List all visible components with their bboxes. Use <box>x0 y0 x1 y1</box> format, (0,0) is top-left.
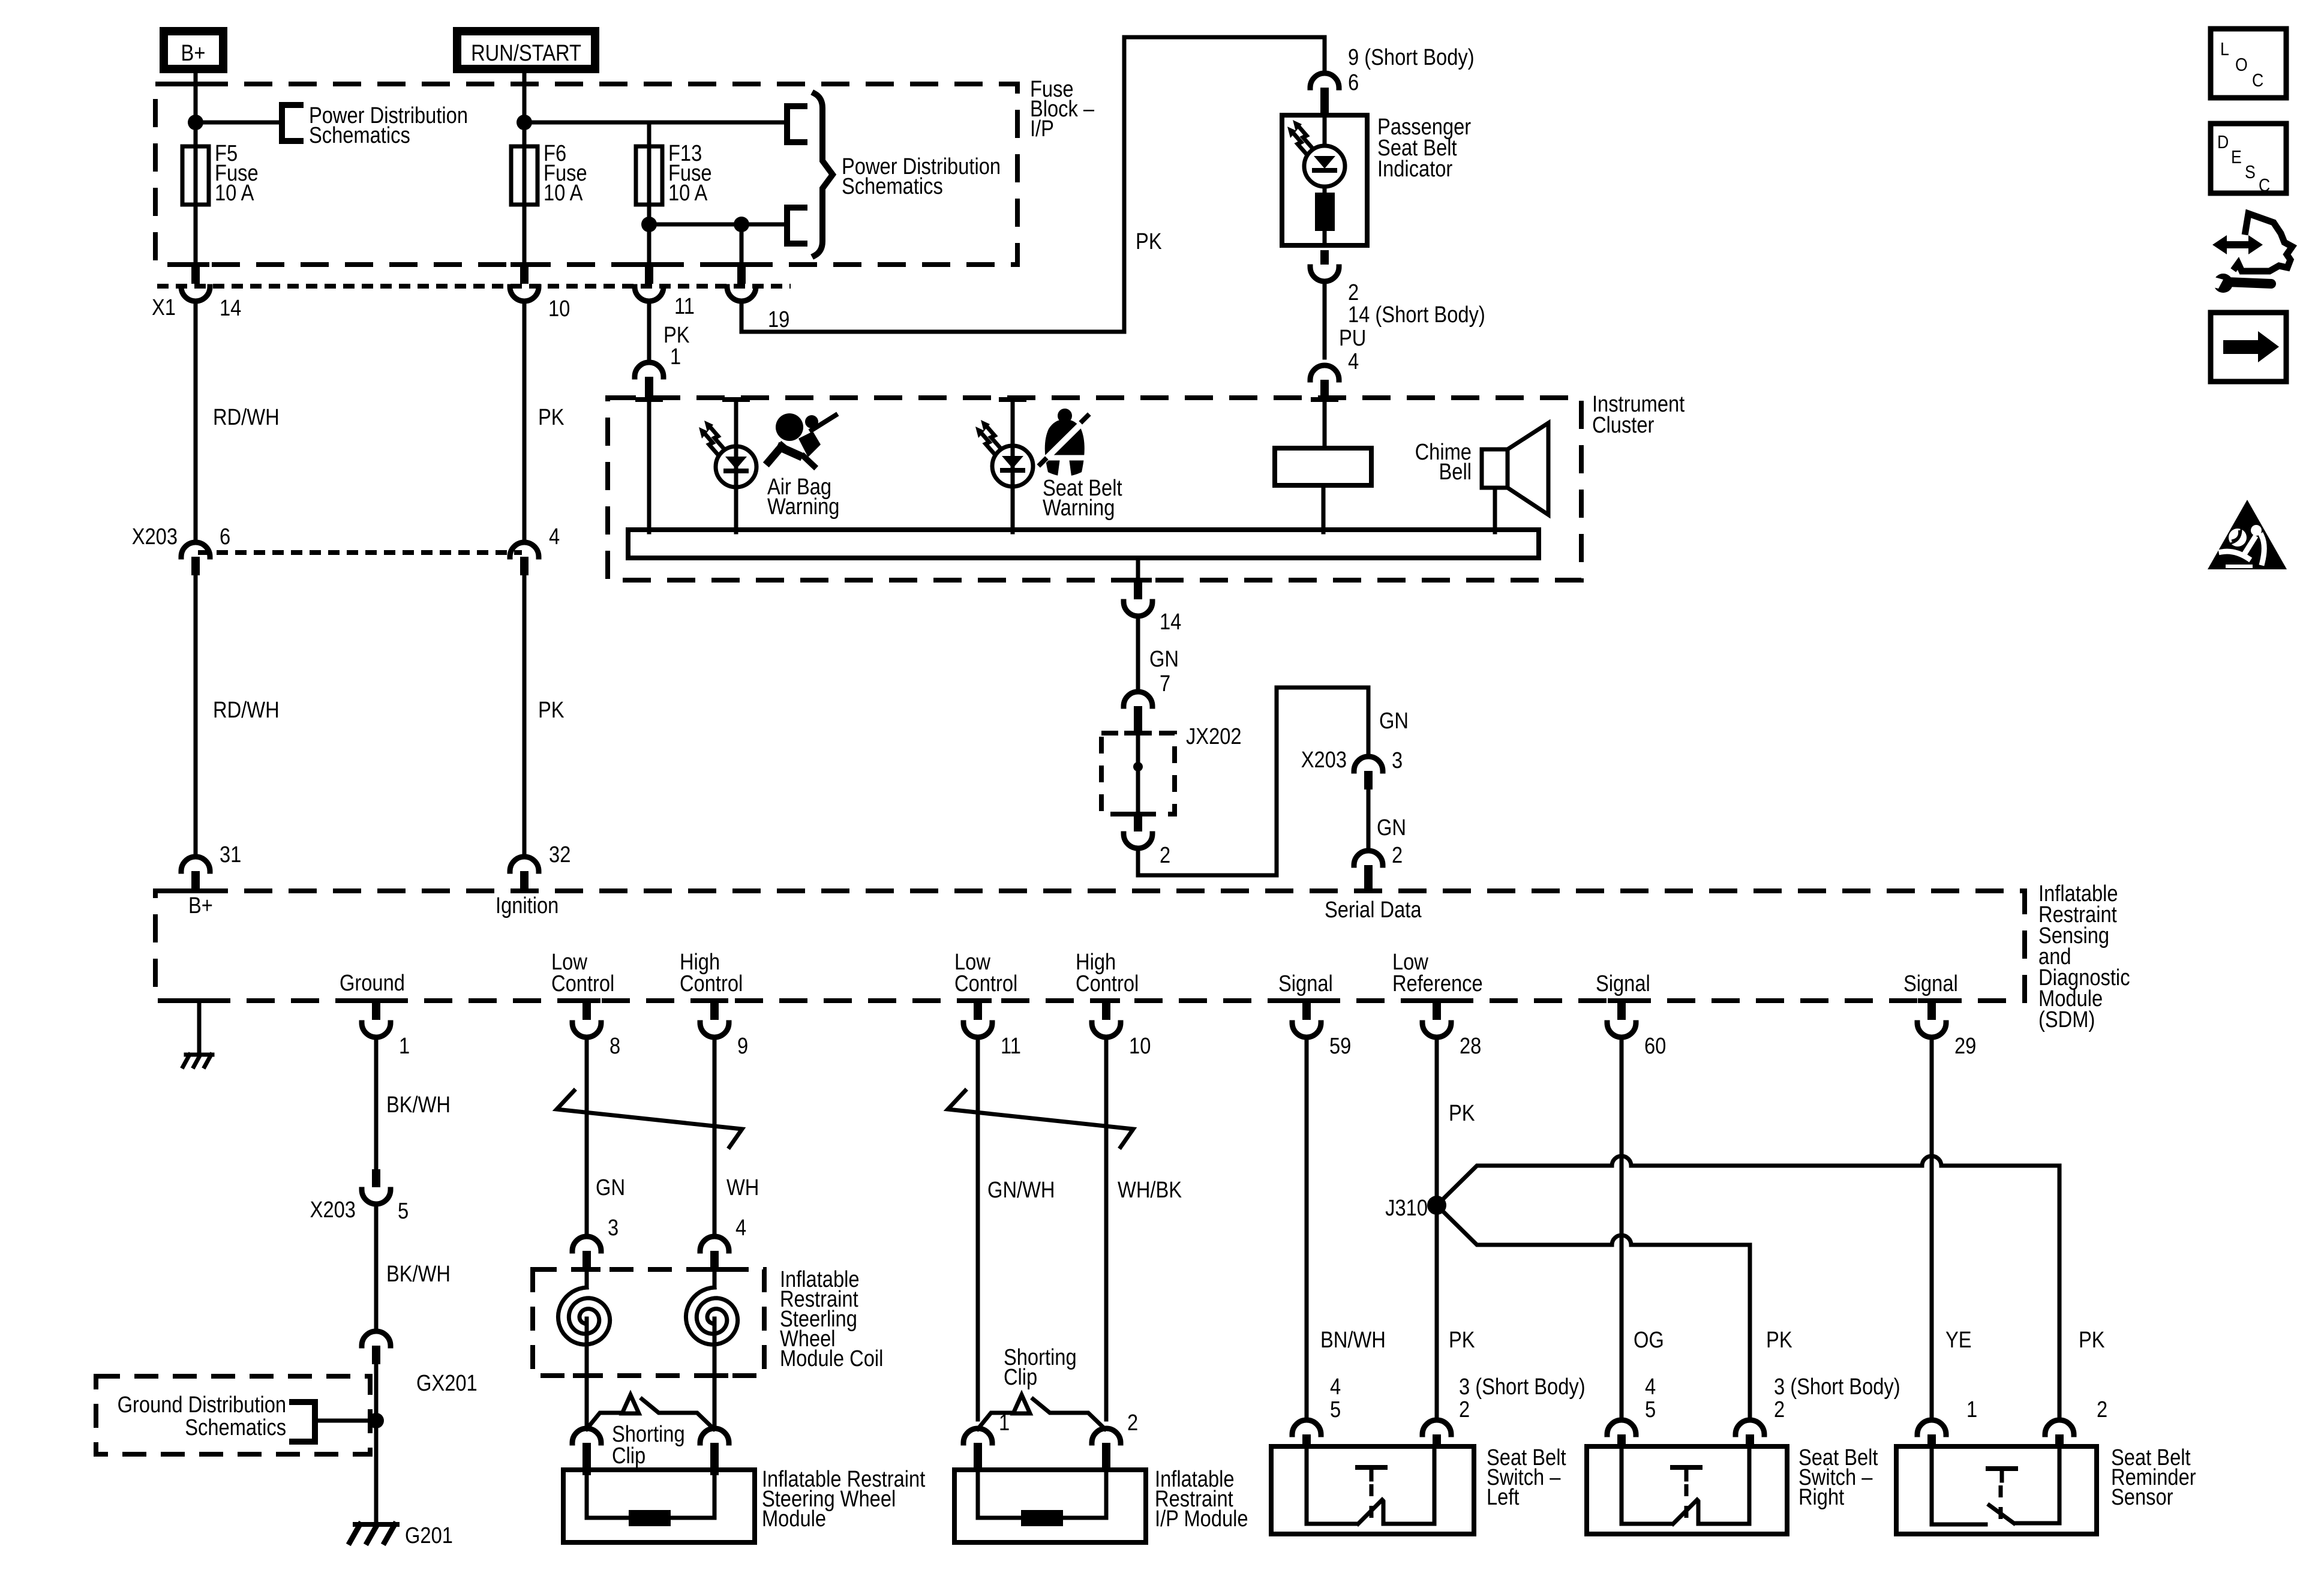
svg-text:B+: B+ <box>181 40 206 66</box>
svg-text:L: L <box>2220 39 2229 59</box>
connector reminder pin 1 <box>1917 1420 1946 1448</box>
svg-text:Control: Control <box>954 971 1017 996</box>
connector indicator pin 2 <box>1310 250 1359 305</box>
svg-text:O: O <box>2235 55 2248 75</box>
svg-text:PK: PK <box>1136 229 1162 254</box>
svg-text:Schematics: Schematics <box>309 122 410 148</box>
svg-text:RD/WH: RD/WH <box>213 404 280 430</box>
connector SDM pin 10 <box>1092 998 1151 1059</box>
svg-text:32: 32 <box>549 842 571 867</box>
svg-text:GN: GN <box>1379 708 1409 734</box>
label air bag warning <box>767 474 839 520</box>
svg-text:GX201: GX201 <box>416 1370 478 1396</box>
wire BK/WH SDM-1 upper <box>376 1037 451 1169</box>
connector X203 pin 5 <box>310 1169 409 1224</box>
svg-text:B+: B+ <box>188 893 213 918</box>
svg-text:GN: GN <box>596 1175 625 1200</box>
connector X203 pin 3 <box>1301 747 1403 789</box>
coil spiral right <box>686 1271 737 1376</box>
J310 branch upper to reminder <box>1437 1156 2059 1419</box>
air bag warning LED <box>699 397 756 532</box>
wire bracket to ground wire <box>315 1419 376 1423</box>
wire BN/WH SDM-59 down <box>1307 1037 1386 1419</box>
label Signal pin 59 <box>1278 971 1333 996</box>
svg-text:Bell: Bell <box>1439 459 1472 485</box>
fuse F5 10A <box>182 140 259 206</box>
svg-text:PK: PK <box>538 404 565 430</box>
svg-text:X203: X203 <box>310 1197 356 1223</box>
svg-text:60: 60 <box>1644 1033 1666 1059</box>
twisted pair mark coil <box>557 1091 742 1147</box>
connector coil pin 4 <box>700 1215 746 1271</box>
wire OG SDM-60 down <box>1622 1037 1664 1419</box>
svg-text:I/P Module: I/P Module <box>1155 1506 1248 1532</box>
connector cluster pin 1 <box>635 362 663 402</box>
svg-text:Cluster: Cluster <box>1592 412 1655 438</box>
svg-text:Reference: Reference <box>1392 971 1483 996</box>
icon car with arrow <box>2211 214 2292 293</box>
svg-text:D: D <box>2217 132 2229 152</box>
svg-text:WH: WH <box>726 1175 759 1200</box>
connector coil pin 3 <box>572 1215 618 1271</box>
svg-text:PK: PK <box>538 697 565 723</box>
wire SDM-9 down <box>713 1037 717 1236</box>
connector right switch pin 5 <box>1607 1420 1636 1448</box>
svg-text:Control: Control <box>551 971 614 996</box>
label shorting clip (I/P) <box>1004 1344 1077 1390</box>
svg-text:14 (Short Body): 14 (Short Body) <box>1348 302 1485 328</box>
right switch contacts <box>1622 1446 1749 1524</box>
connector X1 pin 19 <box>727 266 789 332</box>
svg-text:X1: X1 <box>152 295 176 320</box>
svg-text:1: 1 <box>399 1033 410 1059</box>
svg-text:2: 2 <box>1392 842 1403 868</box>
svg-text:10: 10 <box>1129 1033 1151 1059</box>
wire PK X1-19 to indicator <box>741 37 1325 332</box>
svg-text:4: 4 <box>735 1215 746 1241</box>
wire junction down to X1-19 <box>728 224 755 267</box>
inflatable restraint I/P module box <box>954 1470 1146 1542</box>
connector SDM pin 32 <box>510 842 571 893</box>
connector left switch pin 2 <box>1422 1420 1451 1448</box>
label GN <box>596 1175 625 1200</box>
labels reminder pins <box>1966 1397 2107 1422</box>
svg-text:2: 2 <box>1127 1410 1138 1436</box>
svg-text:Signal: Signal <box>1903 971 1958 996</box>
instrument cluster dashed box <box>608 398 1581 580</box>
wire F13 junction to pin19 junction <box>649 223 741 227</box>
connector SDM pin 8 <box>572 998 620 1059</box>
label passenger seat belt indicator <box>1377 114 1471 182</box>
connector right switch pin 2 <box>1736 1420 1764 1448</box>
svg-text:BN/WH: BN/WH <box>1320 1327 1386 1353</box>
fuse F6 10A <box>511 140 587 206</box>
svg-text:5: 5 <box>398 1198 409 1224</box>
label Low Control pin 11 <box>954 949 1017 996</box>
label PK reminder <box>2079 1327 2105 1353</box>
svg-text:14: 14 <box>1160 609 1181 635</box>
wire chime driver to bus <box>1322 485 1326 532</box>
wire coil to clip left <box>585 1376 589 1425</box>
svg-text:Module Coil: Module Coil <box>780 1346 883 1371</box>
connector SDM pin 1 <box>362 998 410 1059</box>
svg-text:X203: X203 <box>1301 747 1347 773</box>
svg-text:Control: Control <box>680 971 743 996</box>
svg-text:Serial Data: Serial Data <box>1325 897 1422 923</box>
svg-text:1: 1 <box>670 344 681 370</box>
icon DESC box <box>2211 124 2286 196</box>
labels left switch pins <box>1330 1374 1586 1422</box>
label Ground pin <box>340 970 405 996</box>
shorting clip steering wheel <box>587 1395 714 1429</box>
node pin19 junction <box>734 217 749 232</box>
svg-text:6: 6 <box>220 524 230 550</box>
fuse F13 10A <box>636 140 712 206</box>
svg-text:Warning: Warning <box>767 494 839 520</box>
svg-text:Schematics: Schematics <box>842 173 943 199</box>
svg-text:Clip: Clip <box>612 1443 645 1469</box>
svg-text:I/P: I/P <box>1030 116 1054 142</box>
svg-text:GN: GN <box>1149 646 1179 672</box>
label steering wheel module coil <box>780 1266 883 1371</box>
svg-text:19: 19 <box>768 307 789 332</box>
wire coil to clip right <box>713 1376 717 1425</box>
svg-text:PK: PK <box>1449 1100 1475 1126</box>
svg-text:28: 28 <box>1460 1033 1481 1059</box>
label Low Reference pin 28 <box>1392 949 1483 996</box>
svg-text:PK: PK <box>1766 1327 1792 1353</box>
cluster bus bar <box>628 530 1539 558</box>
wire SDM-11 down <box>976 1037 980 1419</box>
wire GN cluster to JX202 <box>1138 616 1179 697</box>
connector SDM pin 59 <box>1292 998 1351 1059</box>
svg-text:Left: Left <box>1487 1484 1520 1510</box>
wire B+ junction to bracket <box>196 121 281 125</box>
connector JX202 pin 7 <box>1124 692 1152 735</box>
left switch actuator <box>1358 1467 1385 1519</box>
svg-text:Schematics: Schematics <box>185 1415 286 1440</box>
inflatable restraint steering wheel module box <box>563 1470 755 1542</box>
connector SDM pin 28 <box>1422 998 1481 1059</box>
connector SDM serial pin 2 <box>1354 842 1403 893</box>
svg-text:BK/WH: BK/WH <box>386 1092 451 1118</box>
I/P squib left lead <box>976 1470 980 1518</box>
svg-text:JX202: JX202 <box>1186 724 1242 749</box>
bracket ground distribution <box>292 1402 315 1442</box>
svg-text:1: 1 <box>999 1410 1010 1436</box>
wire cluster pin1 to bus <box>647 401 651 532</box>
junction block JX202 dashed box <box>1101 731 1175 816</box>
svg-text:4: 4 <box>1645 1374 1656 1400</box>
svg-text:RD/WH: RD/WH <box>213 697 280 723</box>
svg-text:PK: PK <box>2079 1327 2105 1353</box>
label Ignition inside SDM <box>496 893 559 918</box>
module squib <box>587 1510 714 1526</box>
svg-text:11: 11 <box>674 293 695 319</box>
bracket power distribution (upper right) <box>787 106 804 142</box>
node F6 junction <box>517 115 532 130</box>
wire PK X1-10 to X203-4 <box>524 301 565 542</box>
svg-text:GN/WH: GN/WH <box>987 1177 1055 1203</box>
right switch actuator <box>1673 1467 1700 1519</box>
label instrument cluster <box>1592 391 1685 438</box>
wire PK X203-4 to SDM-32 <box>524 575 565 857</box>
SDM dashed box <box>155 888 2025 1001</box>
svg-text:GN: GN <box>1377 815 1406 840</box>
label WH/BK <box>1118 1177 1182 1203</box>
connector module pin right <box>700 1428 729 1475</box>
seat belt switch right box <box>1587 1446 1787 1534</box>
label Signal pin 29 <box>1903 971 1958 996</box>
label PK right switch <box>1766 1327 1792 1353</box>
svg-text:8: 8 <box>609 1033 620 1059</box>
ground G201 <box>350 1523 453 1548</box>
svg-text:Signal: Signal <box>1278 971 1333 996</box>
wire F13 drop <box>647 122 651 149</box>
svg-text:4: 4 <box>1348 349 1359 374</box>
svg-text:Signal: Signal <box>1596 971 1650 996</box>
connector cluster pin 4 <box>1310 365 1339 401</box>
steering wheel module coil dashed box <box>533 1267 764 1378</box>
wire SDM-10 down <box>1104 1037 1109 1419</box>
connector SDM pin 9 <box>700 998 748 1059</box>
svg-text:6: 6 <box>1348 70 1359 95</box>
svg-text:Clip: Clip <box>1004 1364 1037 1390</box>
connector row X1 dotted line <box>157 284 791 289</box>
node JX202 junction <box>1133 762 1143 772</box>
label chime bell <box>1415 439 1472 485</box>
svg-text:9 (Short Body): 9 (Short Body) <box>1348 44 1475 70</box>
svg-text:3: 3 <box>1392 748 1403 773</box>
coil spiral left <box>558 1271 609 1376</box>
label 14 short body / PU / 4 <box>1339 302 1485 374</box>
svg-text:G201: G201 <box>405 1523 453 1548</box>
node ground junction <box>368 1413 384 1428</box>
svg-text:3 (Short Body): 3 (Short Body) <box>1774 1374 1900 1400</box>
brace power distribution schematics <box>815 94 833 256</box>
wire PK J310 to switches <box>1437 1213 1475 1419</box>
left switch contacts <box>1307 1446 1434 1524</box>
power feed box RUN/START <box>457 31 595 69</box>
label Serial Data inside SDM <box>1325 897 1422 923</box>
svg-text:29: 29 <box>1954 1033 1976 1059</box>
node J310 <box>1385 1195 1446 1221</box>
label GN/WH <box>987 1177 1055 1203</box>
svg-text:5: 5 <box>1645 1397 1656 1422</box>
I/P squib <box>978 1510 1106 1526</box>
wire F5 to X1-14 <box>182 205 209 267</box>
svg-text:Warning: Warning <box>1043 495 1115 521</box>
svg-text:2: 2 <box>1459 1397 1470 1422</box>
svg-text:31: 31 <box>220 842 241 867</box>
connector cluster pin 14 (bottom) <box>1124 580 1181 635</box>
reminder switch actuator <box>1988 1469 2016 1520</box>
wire BK/WH X203-5 to GX201 <box>376 1204 451 1331</box>
svg-text:4: 4 <box>1330 1374 1341 1400</box>
connector SDM pin 29 <box>1917 998 1976 1059</box>
connector GX201 <box>362 1331 478 1396</box>
bracket power distribution (lower right) <box>787 208 804 244</box>
connector X1 pin 14 <box>152 266 241 321</box>
reminder switch contacts <box>1932 1446 2059 1524</box>
svg-text:10: 10 <box>548 296 570 322</box>
wire junction to bracket lower <box>741 223 787 227</box>
connector JX202 pin 2 <box>1124 814 1170 868</box>
icon airbag warning triangle <box>2208 500 2287 569</box>
svg-text:Ground: Ground <box>340 970 405 996</box>
svg-text:E: E <box>2231 147 2242 167</box>
bracket power distribution (left) <box>282 105 301 141</box>
connector indicator pin 6 <box>1310 73 1339 118</box>
svg-text:5: 5 <box>1330 1397 1341 1422</box>
passenger seat belt indicator box <box>1282 115 1367 245</box>
wire GX201 to G201 <box>374 1364 379 1524</box>
wire bus to cluster bottom <box>1124 558 1152 583</box>
label JX202 <box>1186 724 1242 749</box>
icon LOC box <box>2211 29 2286 98</box>
wire F6 junction to F13 and bracket <box>524 121 783 125</box>
svg-text:J310: J310 <box>1385 1195 1428 1221</box>
svg-text:Module: Module <box>762 1506 826 1532</box>
J310 branch lower to right switch <box>1437 1205 1750 1419</box>
svg-text:X203: X203 <box>132 524 178 550</box>
label seat belt reminder sensor <box>2111 1445 2196 1510</box>
wire PU indicator to cluster <box>1323 281 1327 358</box>
label power distribution schematics (right) <box>842 154 1001 199</box>
module squib left lead <box>585 1470 589 1518</box>
svg-text:Right: Right <box>1798 1484 1844 1510</box>
wire B+ to F5 <box>182 69 209 149</box>
connector X203 pin 4 <box>510 524 560 575</box>
svg-text:PU: PU <box>1339 325 1366 351</box>
svg-text:Ignition: Ignition <box>496 893 559 918</box>
svg-text:WH/BK: WH/BK <box>1118 1177 1182 1203</box>
connector reminder pin 2 <box>2045 1420 2074 1448</box>
twisted pair mark I/P <box>948 1091 1133 1147</box>
label shorting clip (steering) <box>612 1421 685 1469</box>
connector SDM pin 60 <box>1607 998 1666 1059</box>
connector left switch pin 5 <box>1292 1420 1321 1448</box>
label Low Control pin 8 <box>551 949 614 996</box>
label seat belt switch right <box>1798 1445 1878 1510</box>
svg-text:Indicator: Indicator <box>1377 156 1452 182</box>
connector I/P module pin 1 <box>963 1410 1010 1471</box>
svg-text:OG: OG <box>1634 1327 1664 1353</box>
I/P squib right lead <box>1104 1470 1109 1518</box>
svg-text:10 A: 10 A <box>668 180 708 206</box>
fuse block I/P dashed box <box>155 84 1017 265</box>
svg-text:2: 2 <box>1160 842 1170 868</box>
svg-text:(SDM): (SDM) <box>2038 1007 2095 1032</box>
seat belt switch left box <box>1271 1446 1474 1534</box>
air bag warning icon <box>768 413 836 466</box>
svg-text:YE: YE <box>1945 1327 1972 1353</box>
indicator LED <box>1287 115 1345 193</box>
svg-text:14: 14 <box>220 295 241 321</box>
svg-text:Sensor: Sensor <box>2111 1484 2173 1510</box>
label seat belt switch left <box>1487 1445 1566 1510</box>
wire through JX202 <box>1136 735 1140 813</box>
svg-text:10 A: 10 A <box>215 180 254 206</box>
svg-text:Control: Control <box>1076 971 1139 996</box>
svg-text:4: 4 <box>549 524 560 550</box>
svg-text:10 A: 10 A <box>544 180 583 206</box>
svg-text:C: C <box>2259 175 2270 196</box>
svg-text:11: 11 <box>1001 1033 1021 1059</box>
label ground distribution schematics <box>118 1392 286 1440</box>
labels right switch pins <box>1645 1374 1900 1422</box>
seat belt reminder sensor box <box>1896 1446 2097 1534</box>
wire GN X203-3 to SDM <box>1368 789 1406 851</box>
label SDM <box>2038 881 2130 1032</box>
connector X203 pin 6 <box>132 524 230 575</box>
label WH <box>726 1175 759 1200</box>
connector I/P module pin 2 <box>1092 1410 1138 1471</box>
svg-text:S: S <box>2245 162 2256 182</box>
indicator resistor <box>1315 193 1335 245</box>
wire GN JX202 to X203-3 <box>1138 688 1409 875</box>
seat belt warning LED <box>975 397 1033 532</box>
wire YE SDM-29 down <box>1932 1037 1972 1419</box>
label B+ inside SDM <box>188 893 213 918</box>
svg-text:BK/WH: BK/WH <box>386 1261 451 1287</box>
chime bell speaker <box>1482 423 1548 532</box>
wire F6 to X1-10 <box>511 205 538 267</box>
connector SDM pin 31 <box>181 842 241 893</box>
label High Control pin 9 <box>680 949 743 996</box>
svg-text:59: 59 <box>1329 1033 1351 1059</box>
wire indicator pin4 to chime driver <box>1311 397 1338 448</box>
label High Control pin 10 <box>1076 949 1139 996</box>
wire PK SDM-28 down <box>1437 1037 1475 1197</box>
svg-text:3: 3 <box>608 1215 618 1241</box>
fuse block label Fuse Block - I/P <box>1030 76 1094 142</box>
label steering wheel module <box>762 1466 925 1532</box>
svg-text:1: 1 <box>1966 1397 1977 1422</box>
connector X1 pin 11 <box>635 266 695 319</box>
wire RD/WH X203-6 to SDM-31 <box>196 575 280 857</box>
wire RUN/START to F6 <box>511 69 538 149</box>
seat belt warning icon <box>1040 409 1088 476</box>
node B+ junction <box>188 115 203 130</box>
label power distribution schematics (left) <box>309 103 468 148</box>
shorting clip I/P <box>978 1395 1105 1429</box>
svg-text:C: C <box>2252 70 2263 91</box>
label 9 short body / 6 <box>1348 44 1475 95</box>
svg-text:2: 2 <box>2097 1397 2107 1422</box>
wire SDM-8 down <box>585 1037 589 1236</box>
svg-text:PK: PK <box>1449 1327 1475 1353</box>
label Signal pin 60 <box>1596 971 1650 996</box>
svg-text:9: 9 <box>737 1033 748 1059</box>
connector X1 pin 10 <box>510 266 570 322</box>
module squib right lead <box>713 1470 717 1518</box>
wire F13 to junction <box>635 205 663 267</box>
SDM internal ground <box>183 998 213 1067</box>
icon arrow box <box>2211 313 2286 382</box>
connector module pin left <box>572 1428 601 1475</box>
svg-text:2: 2 <box>1774 1397 1785 1422</box>
svg-text:7: 7 <box>1160 671 1170 697</box>
label I/P module <box>1155 1466 1248 1532</box>
svg-text:3 (Short Body): 3 (Short Body) <box>1459 1374 1586 1400</box>
chime driver box <box>1275 448 1371 485</box>
node F13 junction <box>641 217 657 232</box>
svg-text:RUN/START: RUN/START <box>471 40 581 66</box>
power feed box B+ <box>164 31 223 69</box>
svg-text:Ground Distribution: Ground Distribution <box>118 1392 286 1418</box>
ground distribution schematics dashed box <box>96 1376 370 1454</box>
